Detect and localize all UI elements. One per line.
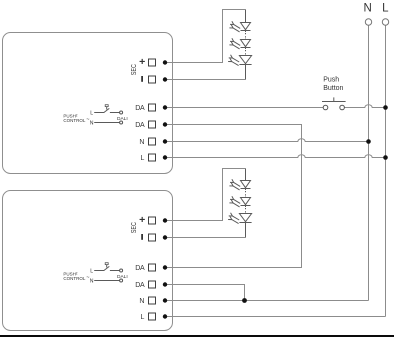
svg-text:SEC: SEC [131,222,138,233]
svg-text:L: L [382,2,389,14]
svg-text:DA: DA [135,122,145,129]
svg-text:DA: DA [135,105,145,112]
svg-text:+: + [139,56,145,68]
svg-text:L: L [90,269,93,275]
svg-text:N: N [364,2,372,14]
svg-text:CONTROL: CONTROL [63,276,85,281]
svg-text:N: N [139,139,144,146]
svg-text:+: + [139,214,145,226]
svg-text:N: N [139,298,144,305]
svg-text:N: N [90,279,94,285]
svg-text:DA: DA [135,282,145,289]
svg-text:L: L [140,155,144,162]
svg-text:L: L [140,314,144,321]
svg-text:Push: Push [323,77,339,84]
svg-text:DALI: DALI [117,274,128,280]
svg-text:N: N [90,121,94,127]
svg-text:DA: DA [135,265,145,272]
svg-text:Button: Button [323,85,343,92]
svg-text:SEC: SEC [131,64,138,75]
svg-text:L: L [90,111,93,117]
svg-text:CONTROL: CONTROL [63,118,85,123]
svg-text:DALI: DALI [117,116,128,122]
